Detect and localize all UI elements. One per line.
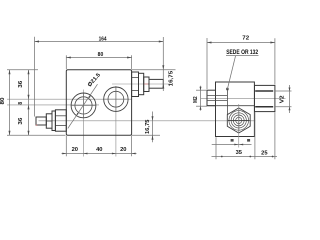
wire V2 thread lines (255, 90, 273, 92)
node right fitting rod tip (149, 79, 163, 88)
node right port outer circle (104, 87, 128, 111)
node red scan artifact left (36, 125, 37, 126)
wire dim 36/8/36 left (28, 70, 30, 136)
node left port outer circle (71, 93, 96, 118)
node body plate (right view) (216, 82, 255, 137)
svg-text:36: 36 (18, 81, 24, 88)
wire dim 16,75 bottom right (152, 112, 154, 143)
node V2 port boss (255, 85, 275, 111)
node left port inner circle (75, 97, 92, 114)
wire port crosshair dark segments (115, 88, 117, 112)
wire right circle vertical centerline (115, 86, 117, 157)
node right port inner circle (108, 91, 124, 107)
svg-text:35: 35 (236, 150, 243, 156)
wire SEDE leader (227, 56, 235, 89)
wire dim V2 (275, 90, 292, 92)
node right fitting hex head (132, 72, 139, 97)
wire dim 35/25 bottom right (212, 156, 278, 158)
svg-text:16,75: 16,75 (145, 119, 151, 134)
wire right circle horizontal centerline (7, 98, 132, 100)
svg-text:M2: M2 (193, 96, 199, 103)
svg-text:16,75: 16,75 (168, 71, 174, 87)
wire dim 16,75 top right (132, 69, 176, 71)
wire port axis centerline right view (201, 97, 286, 99)
node left plug washer (52, 111, 55, 131)
node M2 port boss (207, 90, 216, 106)
wire right-fitting centerline (left view) (112, 83, 171, 85)
svg-text:8: 8 (18, 102, 24, 105)
wire hex vertical centerline (238, 104, 240, 148)
svg-text:36: 36 (18, 117, 24, 124)
node mounting square right (247, 139, 250, 142)
wire left circle horizontal centerline (7, 104, 99, 106)
wire dim 72 top (207, 42, 275, 44)
svg-text:V2: V2 (280, 96, 286, 104)
node right fitting nut (144, 77, 149, 92)
svg-text:SEDE OR 132: SEDE OR 132 (226, 50, 259, 56)
wire extension lines left (7, 69, 38, 71)
svg-text:80: 80 (98, 52, 104, 58)
node hex circles (229, 111, 249, 131)
node left plug hex head (55, 110, 66, 131)
wire center arrow row (212, 144, 252, 146)
node SEDE leader dot (226, 88, 228, 90)
svg-text:164: 164 (99, 37, 107, 43)
wire left circle vertical centerline (83, 90, 85, 157)
wire main horizontal centerline (valve axis through both views) (39, 120, 256, 122)
node left plug rod tip (36, 117, 46, 125)
svg-text:72: 72 (242, 36, 249, 42)
node right fitting washer (139, 73, 144, 94)
wire M2 thread lines (207, 95, 227, 97)
wire dim 164 (35, 41, 164, 43)
node valve body (left view) (66, 70, 131, 136)
svg-text:20: 20 (72, 147, 79, 153)
node mounting square left (231, 139, 234, 142)
wire dim M2 (196, 89, 207, 91)
wire dim 20/40/20 bottom (62, 153, 137, 155)
wire hex dark crosshair (238, 109, 240, 131)
wire dim 80 left side (9, 70, 11, 136)
wire SEDE OR seat line (226, 89, 228, 115)
svg-text:80: 80 (0, 97, 6, 104)
wire diameter leader through left port (68, 84, 98, 128)
svg-text:40: 40 (96, 147, 103, 153)
svg-text:20: 20 (120, 147, 127, 153)
wire plate inner step line (207, 105, 254, 107)
wire dim 80 top (66, 57, 131, 59)
node hex nut (right view) (227, 108, 250, 133)
wire red centerline artifact on right fitting (144, 83, 148, 85)
node left plug nut (46, 114, 52, 128)
svg-text:25: 25 (261, 150, 268, 156)
